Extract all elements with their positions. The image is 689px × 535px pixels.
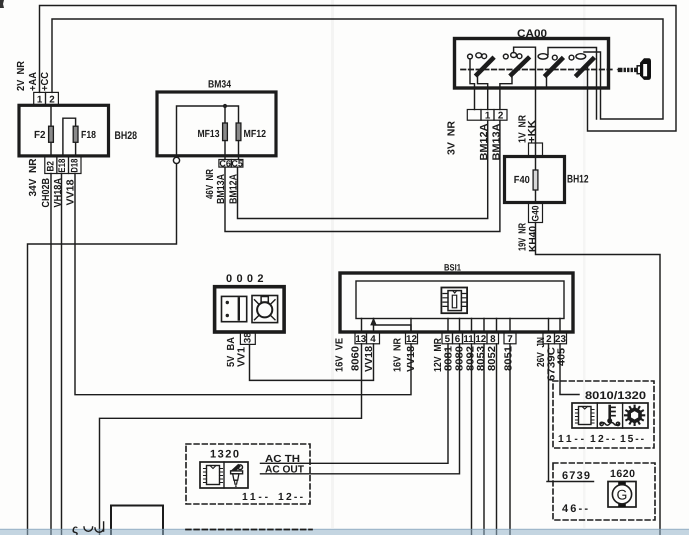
wire 8052: BSI1 pin 8 down [496, 344, 498, 535]
wire 8053: BSI1 pin 12b down [483, 344, 485, 535]
svg-text:8053: 8053 [476, 346, 487, 371]
dashed unit 8010/1320 [553, 381, 654, 448]
svg-text:MF12: MF12 [244, 129, 267, 140]
svg-text:+AA: +AA [28, 71, 39, 91]
wire VV1: 0002 pin 38 to BSI1 pin 4 [250, 344, 374, 381]
wire BM34 left pin down-left net [28, 164, 177, 535]
pin 12 of BSI1 [406, 333, 418, 344]
svg-text:15--: 15-- [620, 434, 645, 445]
svg-text:12V MR: 12V MR [433, 338, 444, 372]
IC symbol U1 inside BSI1 [441, 288, 467, 314]
svg-text:26V JN: 26V JN [536, 337, 547, 367]
svg-text:D18: D18 [69, 158, 80, 173]
svg-text:+KK: +KK [527, 119, 538, 143]
wire 8092: BSI1 pin 11 down [471, 344, 473, 535]
bottom browser strip [0, 529, 689, 535]
wire KH40: fuse F40 out, down right side [536, 223, 661, 535]
internal rail liner BSI1 [356, 281, 564, 319]
svg-text:38: 38 [242, 332, 253, 344]
pin 23 of BSI1 [555, 333, 567, 344]
wire S1 blade to pin 1 [478, 76, 488, 110]
svg-text:8080: 8080 [455, 346, 466, 371]
pin G40 of BH12 [529, 203, 543, 223]
wire +AA net: BH28 pin 1 to CA00 switch 4 [40, 6, 677, 132]
svg-text:BM12A: BM12A [229, 174, 240, 204]
svg-text:8: 8 [490, 334, 496, 345]
svg-text:BH28: BH28 [115, 130, 138, 142]
svg-text:F40: F40 [514, 175, 530, 186]
svg-text:11: 11 [463, 334, 474, 345]
pin 5 of BSI1 [442, 333, 453, 344]
pin 6 of BSI1 [453, 333, 463, 344]
svg-text:MF13: MF13 [198, 129, 220, 140]
svg-text:1320: 1320 [210, 448, 239, 460]
svg-text:1: 1 [37, 95, 43, 106]
wire F2 feed inside BH28 [50, 106, 52, 156]
svg-text:AC OUT: AC OUT [265, 465, 305, 476]
svg-text:405: 405 [557, 348, 568, 366]
pin 13 of BSI1 [355, 333, 367, 344]
svg-text:BM34: BM34 [208, 79, 231, 91]
svg-text:VV18: VV18 [406, 346, 417, 372]
pin C5 of BM34 [231, 160, 243, 168]
pin 7 of BSI1 [504, 333, 516, 344]
pin 1 of CA00 [481, 110, 494, 121]
svg-text:0002: 0002 [226, 273, 264, 285]
pin B2 of BH28 [45, 157, 57, 174]
svg-text:G: G [617, 486, 628, 502]
fuse box BH28 [19, 105, 109, 156]
svg-text:C6: C6 [219, 158, 231, 168]
pin 38 of 0002 [240, 333, 255, 345]
svg-text:VV1: VV1 [237, 347, 248, 367]
svg-text:11--: 11-- [242, 492, 269, 503]
fuse box BM34 [157, 92, 276, 156]
fuse box BH12 [505, 157, 565, 203]
svg-text:12: 12 [406, 334, 417, 345]
switch cell of 0002 [222, 296, 247, 321]
svg-text:19V NR: 19V NR [518, 223, 529, 251]
svg-text:5V BA: 5V BA [226, 337, 237, 367]
svg-text:F18: F18 [81, 130, 96, 141]
svg-text:F2: F2 [34, 130, 46, 141]
dashed box top edge (cut off) [186, 529, 312, 531]
svg-text:VV18: VV18 [66, 179, 77, 205]
dashed actuator line CA00 [461, 69, 614, 71]
pin 1 of BH28 [34, 92, 46, 104]
svg-text:8052: 8052 [487, 346, 498, 371]
wire 8080 AC OUT: BSI1 pin 6 [261, 344, 460, 474]
wire 8051: BSI1 pin 7 down [509, 344, 511, 535]
svg-text:G40: G40 [530, 206, 541, 222]
svg-text:6739: 6739 [562, 470, 590, 482]
fuse MF12 [236, 123, 241, 141]
svg-text:6: 6 [455, 334, 461, 345]
svg-text:2: 2 [49, 95, 55, 106]
wire VV18: BH28 pin D18 to BSI1 pin 12 [75, 174, 411, 395]
wire 405: BSI1 pin 23 to box 8010/1320 [560, 344, 579, 395]
node junction BM34 rail [223, 104, 227, 108]
svg-text:16V VE: 16V VE [335, 338, 346, 372]
injector icon in 1320 [238, 465, 243, 470]
ignition switch CA00 [455, 39, 609, 89]
key symbol [617, 68, 622, 72]
pin 11 of BSI1 [463, 333, 475, 344]
pin blank of CA00 [467, 110, 481, 121]
wire 6739C: BSI1 pin 2 to box 6739 [547, 344, 594, 482]
svg-text:ς: ς [72, 522, 78, 535]
wire VH18A: BH28 pin E18 down [61, 174, 63, 535]
svg-text:CA00: CA00 [517, 28, 547, 40]
fuse F40 [533, 170, 538, 190]
svg-text:CH02B: CH02B [41, 178, 52, 208]
svg-text:12--: 12-- [590, 434, 616, 445]
svg-text:B2: B2 [45, 161, 56, 172]
wire F18 feed (U link) inside BH28 [63, 118, 76, 156]
icon box 1320 [200, 462, 248, 488]
svg-text:1: 1 [485, 111, 491, 122]
svg-text:12: 12 [475, 334, 486, 345]
svg-text:3V NR: 3V NR [447, 120, 458, 155]
svg-text:5: 5 [445, 334, 451, 345]
wire F40 feed [535, 157, 537, 204]
component box bottom-left (cut off) [111, 506, 163, 535]
svg-text:16V NR: 16V NR [393, 338, 404, 372]
switch blade S3 [546, 59, 562, 75]
lamp cell of 0002 [252, 296, 278, 323]
svg-text:1620: 1620 [610, 468, 635, 480]
svg-text:8092: 8092 [466, 346, 477, 371]
svg-text:4: 4 [370, 334, 376, 345]
fuse F2 [49, 126, 54, 142]
pin stubs BSI1 [362, 319, 561, 333]
wire node: CA00 switch 3 contact to +CC rail [548, 48, 597, 120]
svg-text:46V NR: 46V NR [205, 169, 216, 199]
pin 2 of BH28 [46, 92, 59, 104]
svg-text:BM12A: BM12A [479, 123, 490, 161]
switch blade S1 [477, 59, 493, 75]
icon box 8010/1320 [572, 403, 648, 428]
pin 2 of BSI1 [543, 333, 555, 344]
wire 8060: BSI1 pin 13 down-left [100, 344, 362, 535]
svg-text:34V NR: 34V NR [28, 158, 39, 197]
internal link arrow pin4 to pin12 [374, 325, 412, 332]
pin 4 of BSI1 [367, 333, 380, 344]
coolant temperature icon [608, 406, 611, 420]
wire MF12 to pin C5 [238, 141, 240, 160]
wire MF13 to pin C6 [224, 141, 226, 160]
svg-text:+CC: +CC [40, 71, 51, 91]
IC icon in 1320 [207, 466, 220, 485]
ECU BSI1 [340, 273, 573, 332]
svg-text:8010/1320: 8010/1320 [585, 390, 646, 402]
svg-text:8060: 8060 [351, 346, 362, 371]
pin 12b of BSI1 [475, 333, 488, 344]
dashed unit 6739 (generator) [553, 463, 655, 520]
pin D18 of BH28 [69, 157, 82, 174]
wire BM12A: BM34 pin C5 to CA00 pin 1 [238, 120, 488, 218]
switch blade S4 [577, 59, 593, 75]
wire S2 blade to pin 2 [500, 76, 512, 110]
svg-text:VH18A: VH18A [53, 178, 64, 208]
wire S2 contact to fuse F40 (+KK) [514, 47, 536, 143]
switch/lamp unit 0002 [215, 287, 285, 332]
svg-text:13: 13 [355, 334, 366, 345]
pin C6 of BM34 [219, 160, 231, 168]
svg-text:2: 2 [498, 111, 504, 122]
svg-text:BM13A: BM13A [492, 123, 503, 161]
fuse F18 [73, 126, 78, 142]
switch contact circles S1 [468, 54, 473, 59]
pin box above F40 [529, 143, 543, 157]
generator G symbol [608, 482, 636, 508]
svg-text:2V NR: 2V NR [16, 61, 27, 91]
svg-text:AC TH: AC TH [265, 454, 300, 465]
svg-text:C5: C5 [231, 158, 243, 168]
svg-text:12--: 12-- [278, 492, 304, 503]
svg-text:8081: 8081 [444, 346, 455, 371]
switch contact circles S2 [503, 54, 508, 59]
wire BM13A: BM34 pin C6 to CA00 pin 2 [225, 120, 500, 231]
svg-text:11--: 11-- [558, 434, 585, 445]
node connector ring BM34 left pin [173, 157, 179, 163]
corner speck [0, 0, 4, 8]
snowflake icon [629, 409, 640, 421]
scanner bands [331, 0, 334, 528]
svg-text:BSI1: BSI1 [444, 263, 461, 273]
wire S3 blade stub [546, 76, 548, 87]
fuse MF13 [223, 123, 228, 141]
svg-text:7: 7 [507, 334, 513, 345]
wire 8081 AC TH: BSI1 pin 5 [261, 344, 449, 464]
switch contact circles S4 [569, 55, 574, 60]
svg-text:KH40: KH40 [528, 226, 539, 252]
svg-text:VV18: VV18 [364, 346, 375, 372]
wire S1 contact to blank pin [470, 59, 475, 110]
pin 2 of CA00 [494, 110, 507, 121]
svg-text:BM13A: BM13A [216, 174, 227, 204]
IC icon in 8010/1320 [579, 407, 592, 425]
switch contact circles S3 [538, 54, 548, 59]
pin E18 of BH28 [57, 157, 69, 174]
switch blade S2 [512, 59, 529, 75]
wire +CC net: BH28 pin 2 to CA00 internal rail [52, 19, 663, 119]
svg-text:23: 23 [555, 334, 566, 345]
svg-text:E18: E18 [57, 158, 68, 173]
dashed unit 1320 (A/C) [186, 444, 310, 504]
svg-text:8051: 8051 [504, 346, 515, 371]
wire internal rail BM34 [177, 106, 239, 156]
pin 8 of BSI1 [487, 333, 499, 344]
wire CH02B: BH28 pin B2 down [50, 174, 52, 535]
